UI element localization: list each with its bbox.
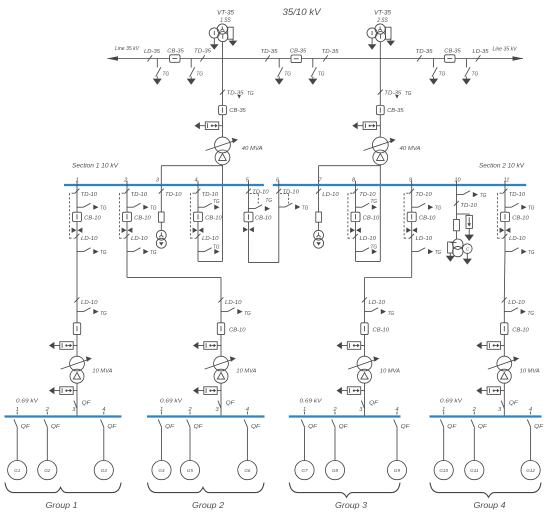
transformer chain 2 (10 MVA no.2) [193,297,257,408]
svg-text:G4: G4 [158,468,165,473]
svg-text:2 SS: 2 SS [376,17,388,24]
svg-text:40 MVA: 40 MVA [242,146,263,152]
svg-text:TG: TG [163,72,170,78]
label 0.69 kV group 1 [16,399,39,405]
voltage transformer VT-35 no.1 [209,24,237,59]
transformer chain 1 (10 MVA no.1) [49,297,113,408]
wire bay 9 down and over to chain 3 [365,252,412,299]
svg-text:40 MVA: 40 MVA [400,146,421,152]
svg-text:0.69 kV: 0.69 kV [16,399,39,405]
svg-text:Section 2 10 kV: Section 2 10 kV [479,162,525,169]
svg-text:CB-10: CB-10 [512,327,529,333]
svg-text:CB-35: CB-35 [290,49,307,55]
generator feeder G5 [180,412,203,480]
label Line 35 kV left [115,46,140,52]
svg-text:0.69 kV: 0.69 kV [160,399,183,405]
bus 0.69 kV group 1 [5,415,122,417]
wire chain 1 tail [76,383,78,416]
generator feeder G10 [434,412,457,480]
svg-text:LD-10: LD-10 [131,236,148,242]
svg-text:Group 2: Group 2 [192,501,224,510]
svg-text:TG: TG [100,206,107,212]
station transformer bay 3 (TSN-1) [156,185,182,248]
svg-text:TG: TG [439,72,446,78]
svg-text:TG: TG [480,193,487,199]
feeder bay 4 (T1 incomer) [190,181,222,255]
svg-text:LD-10: LD-10 [81,236,98,242]
svg-text:TD-10: TD-10 [165,192,182,198]
svg-text:TG: TG [244,311,251,317]
svg-text:TG: TG [100,311,107,317]
svg-text:TD-10: TD-10 [359,192,376,198]
label 0.69 kV group 2 [160,399,183,405]
svg-text:G7: G7 [301,468,308,473]
svg-text:TD-35: TD-35 [194,49,212,55]
svg-text:QF: QF [339,424,349,430]
earthing switch TG (left of CB-35 left) [153,59,170,85]
svg-text:TG: TG [284,72,291,78]
circuit breaker CB-35 left [167,49,184,63]
wire T2 to section 2 (bay 7) [319,166,381,185]
disconnector TD-35 left [194,49,212,62]
svg-text:QF: QF [534,424,544,430]
wire 35 kV overhead line [108,58,524,60]
svg-text:Line 35 kV: Line 35 kV [115,46,140,52]
svg-text:G11: G11 [470,468,479,473]
bus 0.69 kV group 3 [289,415,401,417]
wire chain 3 head [364,299,366,356]
svg-text:4: 4 [194,177,197,183]
svg-text:CB-10: CB-10 [363,215,380,221]
svg-text:CB-35: CB-35 [444,49,461,55]
generator feeder G7 [295,412,318,480]
wire 40 MVA no.2 HV lead [379,59,381,138]
bus Section 2 10 kV [273,184,526,186]
wire chain 4 head [503,299,505,356]
transformer bay T2 devices [352,90,420,165]
wire bay 2 down and over to chain 2 [127,252,221,299]
circuit breaker CB-35 right [444,49,461,63]
svg-text:TG: TG [388,311,395,317]
svg-text:CB-10: CB-10 [205,215,222,221]
generator feeder G1 [8,412,31,480]
svg-text:TD-10: TD-10 [202,192,219,198]
title 35/10 kV [283,7,322,17]
svg-text:LD-10: LD-10 [508,300,525,306]
svg-text:CB-10: CB-10 [419,215,436,221]
transformer chain 4 (10 MVA no.4) [476,297,540,408]
earthing switch TG (right of CB-35 right) [462,59,479,85]
svg-text:10 MVA: 10 MVA [520,368,540,374]
svg-text:LD-10: LD-10 [322,192,339,198]
wire chain 3 tail [364,383,366,416]
svg-text:10 MVA: 10 MVA [380,368,400,374]
svg-text:CB-10: CB-10 [373,327,390,333]
voltage transformer VT-35 no.2 [367,24,395,59]
svg-text:G2: G2 [44,468,51,473]
svg-text:10: 10 [454,177,461,183]
svg-text:TG: TG [266,198,273,204]
earthing switch TG (right of CB-35 left) [187,59,204,85]
svg-text:TG: TG [213,199,220,205]
label Section 1 10 kV [72,162,119,169]
svg-text:TD-10: TD-10 [415,192,432,198]
svg-text:TG: TG [302,205,309,211]
generator feeder G4 [152,412,175,480]
wire 40 MVA no.2 LV lead [379,165,381,262]
brace group 3 [289,483,400,498]
svg-text:TD-10: TD-10 [509,192,526,198]
node numbers group 1 [16,407,106,413]
feeder bay 8 (T2 incomer) [348,181,380,255]
node numbers group 2 [160,407,249,413]
svg-text:LD-10: LD-10 [225,300,242,306]
svg-text:LD-10: LD-10 [509,236,526,242]
bus tie bay 5 [244,181,273,233]
brace group 1 [5,483,121,493]
disconnector LD-35 right [473,49,490,61]
generator feeder G9 [387,412,410,480]
svg-text:10 MVA: 10 MVA [92,368,112,374]
svg-text:QF: QF [82,401,92,407]
bus 0.69 kV group 2 [147,415,265,417]
svg-text:TD-35: TD-35 [322,49,340,55]
generator feeder G11 [465,412,488,480]
label Line 35 kV right [493,47,518,53]
svg-text:TD-35: TD-35 [261,49,279,55]
svg-text:10 MVA: 10 MVA [236,368,256,374]
svg-text:VT-35: VT-35 [217,10,235,17]
wire T1 to section 1 (bay 3) [161,166,222,185]
svg-text:CB-10: CB-10 [134,215,151,221]
svg-text:CB-10: CB-10 [255,216,272,222]
svg-text:LD-35: LD-35 [473,49,490,55]
svg-text:TG: TG [100,250,107,256]
svg-text:TD-35: TD-35 [384,91,402,97]
svg-text:TG: TG [371,244,378,250]
svg-text:TG: TG [196,72,203,78]
wire T2 incomer turn to bay 8 [356,252,381,262]
svg-text:0.69 kV: 0.69 kV [440,399,463,405]
wire bus tie U [249,207,279,263]
svg-text:QF: QF [194,424,204,430]
svg-text:0.69 kV: 0.69 kV [300,399,323,405]
svg-text:QF: QF [369,401,379,407]
svg-text:TG: TG [318,72,325,78]
label Group 4 [474,501,506,510]
svg-text:QF: QF [308,424,318,430]
svg-text:G10: G10 [439,468,448,473]
label 0.69 kV group 3 [300,399,323,405]
svg-text:G6: G6 [244,468,251,473]
svg-text:QF: QF [251,424,261,430]
bus Section 1 10 kV [64,184,264,186]
generator feeder G2 [38,412,61,480]
arrow line end right [513,56,524,61]
svg-text:TG: TG [213,244,220,250]
voltage transformer VT-10 cluster bay 10 [446,239,472,265]
svg-text:QF: QF [21,424,31,430]
brace group 4 [430,483,541,498]
wire 40 MVA no.1 HV lead [222,59,224,138]
wire chain 2 tail [220,383,222,416]
node numbers group 3 [303,407,399,413]
svg-text:TG: TG [150,250,157,256]
generator feeder G12 [521,412,544,480]
earthing switch TG (right of CB-35 mid) [308,59,325,85]
svg-text:TG: TG [528,206,535,212]
transformer chain 3 (10 MVA no.3) [337,297,401,408]
disconnector LD-35 left [144,49,161,61]
svg-text:TD-10: TD-10 [81,192,98,198]
svg-text:TD-10: TD-10 [131,192,148,198]
svg-text:G8: G8 [332,468,339,473]
disconnector TD-35 right [416,49,434,61]
generator feeder G8 [325,412,348,480]
svg-text:G12: G12 [526,468,535,473]
svg-text:QF: QF [165,424,175,430]
station transformer bay 7 (TSN-2) [314,185,340,248]
svg-text:Line 35 kV: Line 35 kV [493,47,518,53]
svg-text:1 SS: 1 SS [220,17,231,24]
disconnector TD-35 mid-right [322,49,340,61]
svg-text:QF: QF [401,424,411,430]
brace group 2 [148,483,265,493]
generator feeder G3 [94,412,117,480]
svg-text:TD-10: TD-10 [282,190,299,196]
svg-text:VT-35: VT-35 [374,10,392,17]
label Group 1 [46,501,78,510]
svg-text:TG: TG [247,91,254,97]
svg-text:TG: TG [472,72,479,78]
svg-text:Group 3: Group 3 [335,501,367,510]
svg-text:CB-10: CB-10 [229,327,246,333]
svg-text:G9: G9 [394,468,401,473]
svg-text:TG: TG [405,91,412,97]
wire bay 11 down [503,252,506,299]
svg-text:35/10 kV: 35/10 kV [283,7,322,17]
wire chain 1 head [76,299,78,356]
svg-text:LD-35: LD-35 [144,49,161,55]
svg-text:LD-10: LD-10 [202,236,219,242]
node numbers group 4 [442,407,532,413]
feeder bay 1 [69,181,107,256]
svg-text:QF: QF [509,401,519,407]
svg-text:QF: QF [447,424,457,430]
label Section 2 10 kV [479,162,525,169]
svg-text:TG: TG [528,250,535,256]
svg-text:Section 1 10 kV: Section 1 10 kV [72,162,119,169]
node numbers section 1 [76,177,280,183]
feeder bay 2 [119,181,157,256]
svg-text:CB-35: CB-35 [167,49,184,55]
svg-text:CB-35: CB-35 [387,108,404,114]
svg-text:Group 4: Group 4 [474,501,506,510]
svg-text:Group 1: Group 1 [46,501,78,510]
wire bay 1 down [76,252,78,299]
feeder bay 11 [497,181,535,256]
svg-text:CB-35: CB-35 [229,108,246,114]
svg-text:TD-35: TD-35 [416,49,434,55]
disconnector TD-35 mid-left [261,49,279,61]
svg-text:CB-10: CB-10 [84,215,101,221]
wire chain 2 head [220,299,222,356]
label VT-35 1 SS [217,10,235,24]
svg-text:QF: QF [51,424,61,430]
svg-text:QF: QF [107,424,117,430]
transformer bay T1 devices [195,90,263,165]
svg-text:CB-10: CB-10 [512,215,529,221]
label 0.69 kV group 4 [440,399,463,405]
svg-text:TG: TG [435,206,442,212]
svg-text:LD-10: LD-10 [369,300,386,306]
earthing switch TG (left of CB-35 right) [429,59,446,85]
svg-text:TG: TG [528,311,535,317]
label Group 2 [192,501,224,510]
generator feeder G6 [238,412,261,480]
label VT-35 2 SS [374,10,392,24]
label Group 3 [335,501,367,510]
circuit breaker CB-35 middle [290,49,307,63]
svg-text:G5: G5 [187,468,194,473]
node numbers section 2 [318,177,509,183]
earthing switch TG (left of CB-35 mid) [275,59,292,85]
svg-text:LD-10: LD-10 [81,300,98,306]
svg-text:TG: TG [150,206,157,212]
svg-text:TG: TG [371,199,378,205]
voltage transformer bay 10 head, fuse and surge arrester [454,181,487,241]
wire 40 MVA no.1 LV lead [222,165,224,262]
svg-text:G3: G3 [101,468,108,473]
svg-text:TG: TG [435,250,442,256]
wire T1 incomer turn to bay 4 [198,252,223,262]
svg-text:TD-10: TD-10 [460,203,477,209]
svg-text:G1: G1 [14,468,21,473]
svg-text:11: 11 [504,177,510,183]
svg-text:TD-35: TD-35 [227,91,245,97]
svg-text:LD-10: LD-10 [360,236,377,242]
arrow line end left [107,56,118,61]
bus tie bay 6 [276,181,309,212]
wire chain 4 tail [503,383,505,416]
svg-text:QF: QF [478,424,488,430]
svg-text:QF: QF [226,401,236,407]
svg-text:TD-10: TD-10 [252,190,269,196]
svg-text:LD-10: LD-10 [416,236,433,242]
bus 0.69 kV group 4 [430,415,542,417]
feeder bay 9 [404,181,442,256]
